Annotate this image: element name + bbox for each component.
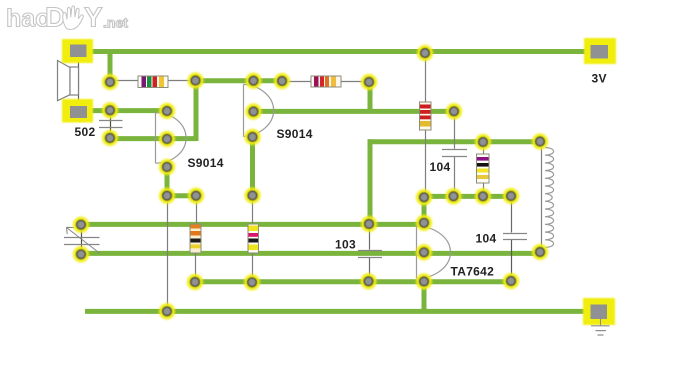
svg-text:D: D	[45, 2, 65, 33]
node ground rail x167	[159, 303, 175, 319]
wire lead C103 bottom x369	[369, 258, 371, 281]
wire coil straight lead x541	[541, 142, 543, 252]
pad SQ2 speaker -	[62, 99, 93, 123]
transistor Q2 S9014 outline	[244, 84, 274, 136]
svg-text:104: 104	[430, 160, 451, 174]
wire vertical x196 from node y81 to y138	[194, 81, 199, 141]
transistor Q1 S9014 outline	[156, 113, 187, 164]
wire lead R6 top x483	[483, 142, 485, 155]
wire lead C104a bottom x454	[454, 157, 456, 197]
svg-text:hao: hao	[6, 5, 50, 33]
wire lead R3 top x196	[196, 196, 198, 225]
wire lead Cvar x81	[81, 225, 83, 254]
wire row y196 left pair	[167, 193, 196, 198]
wire lead R4 top x252	[252, 196, 254, 226]
node C1 bottom	[102, 130, 118, 146]
wire row y282	[195, 279, 511, 284]
svg-text:Y: Y	[84, 2, 103, 33]
node tuning bottom left	[73, 246, 89, 262]
wire lead C103 top x369	[369, 224, 371, 250]
svg-text:104: 104	[476, 232, 497, 246]
wire row y81 between Q1 top and Q2	[195, 78, 282, 83]
wire vertical x424 TA pin3 to ground rail	[422, 282, 427, 312]
svg-text:TA7642: TA7642	[451, 264, 495, 278]
node V+ junction x110	[102, 74, 118, 90]
resistor R4 vertical	[248, 224, 259, 253]
wire speaker pad to Q1 base row y110	[90, 108, 167, 113]
svg-text:502: 502	[75, 125, 96, 139]
wire lead C104a top x454	[454, 111, 456, 149]
resistor R5 vertical	[420, 102, 432, 130]
wires layer	[78, 52, 600, 312]
wire row y196 TA7642 top	[424, 194, 511, 199]
node C5 bottom x511	[503, 273, 519, 289]
node Q2 pin2	[246, 104, 262, 120]
node R4 bottom x252	[244, 274, 260, 290]
resistor R1 horizontal	[138, 76, 168, 88]
node row196 x511	[503, 188, 519, 204]
node C3 top x369	[361, 216, 377, 232]
pad SQ1 speaker +	[62, 39, 93, 63]
wire corner x370 down to pad y224	[368, 139, 373, 224]
wire lead R3 bottom x195.5	[195, 252, 197, 282]
ground symbol	[591, 317, 610, 335]
node coil bottom	[532, 244, 548, 260]
node row196 x483	[475, 188, 491, 204]
node speaker/C1 top	[102, 102, 118, 118]
wire lead R4 bottom x252	[252, 252, 254, 282]
node Q2 base pin	[246, 73, 262, 89]
node Q2 pin3	[245, 129, 261, 145]
node C3 bottom x368	[361, 273, 377, 289]
capacitor C1 502 plates	[99, 121, 123, 128]
node tuning top left	[73, 217, 89, 233]
node row196 x167	[159, 188, 175, 204]
capacitor C3 103 plates	[358, 251, 382, 258]
capacitor C4 104 plates	[442, 150, 467, 157]
resistor R6 vertical	[477, 154, 490, 183]
wire drop from rail to node at x110	[108, 52, 113, 83]
resistor R2 horizontal	[311, 76, 341, 87]
node C4 top x454	[446, 103, 462, 119]
IC U1 TA7642 outline	[417, 226, 451, 278]
node row196 x196	[188, 188, 204, 204]
svg-text:S9014: S9014	[277, 127, 313, 141]
pad SQ3 3V supply	[584, 38, 616, 64]
wire row y141.5 to coil top	[368, 139, 541, 144]
speaker SP1	[58, 61, 79, 101]
capacitor C2 variable plates	[64, 227, 100, 253]
svg-text:S9014: S9014	[188, 156, 224, 170]
wire speaker leads vertical x78	[78, 51, 80, 111]
node Q1 pin3	[159, 159, 175, 175]
node Q1 pin1	[159, 103, 175, 119]
inductor L1 coil	[545, 148, 554, 248]
node row196 x424	[416, 189, 432, 205]
node coil top	[532, 134, 548, 150]
node U1 pin3	[416, 274, 432, 290]
node row196 x252	[245, 188, 261, 204]
resistor R3 vertical 33k	[190, 224, 201, 253]
wire long row y224	[81, 222, 424, 227]
wire Q1 emitter down	[165, 167, 170, 196]
wire lead R1 left	[113, 80, 140, 82]
wire bottom ground rail	[85, 309, 600, 314]
wire long row y253	[81, 251, 540, 256]
node R2-left junction	[274, 73, 290, 89]
node R1-right junction	[188, 73, 204, 89]
svg-text:103: 103	[335, 237, 356, 251]
node R2-right junction	[361, 74, 377, 90]
wire lead C104b bottom x511	[511, 240, 513, 281]
node Q1 pin2	[159, 131, 175, 147]
wire long lead x167	[167, 196, 169, 311]
node U1 pin2	[416, 244, 432, 260]
wire vertical x370 from pad y82 to row y111	[368, 82, 373, 113]
wire top rail 3V	[78, 49, 600, 54]
svg-text:.net: .net	[103, 15, 128, 31]
wire lead R6 bottom x483	[483, 182, 485, 196]
wire lead R2 right	[339, 81, 369, 83]
wire lead R5 x425 top	[425, 53, 427, 103]
wire lead R5 x425 bottom	[425, 129, 427, 197]
capacitor C5 104 plates	[503, 234, 527, 240]
wire row y111 Q2 emitter to pad x454	[253, 109, 454, 114]
wire vertical x424 pad to TA pin1	[422, 197, 427, 223]
thin component leads	[79, 51, 542, 311]
node R3 bottom x195	[187, 274, 203, 290]
node rail junction x425	[417, 45, 433, 61]
wire row y138 to Q1 collector	[110, 136, 196, 141]
node U1 pin1	[416, 215, 432, 231]
pad SQ4 ground	[583, 298, 615, 325]
wire lead R2 left	[284, 81, 313, 83]
wire lead R1 right	[166, 80, 196, 82]
wire lead C104b top x511	[511, 196, 513, 233]
wire vertical Q2 collector x252	[250, 137, 255, 196]
pads: yellow glow + gray core	[73, 45, 548, 319]
svg-text:3V: 3V	[592, 71, 607, 85]
node row196 x454	[446, 188, 462, 204]
logo haoDIY.net	[0, 0, 150, 34]
node R6 top x483	[475, 134, 491, 150]
wire lead C502 x110	[110, 110, 112, 138]
